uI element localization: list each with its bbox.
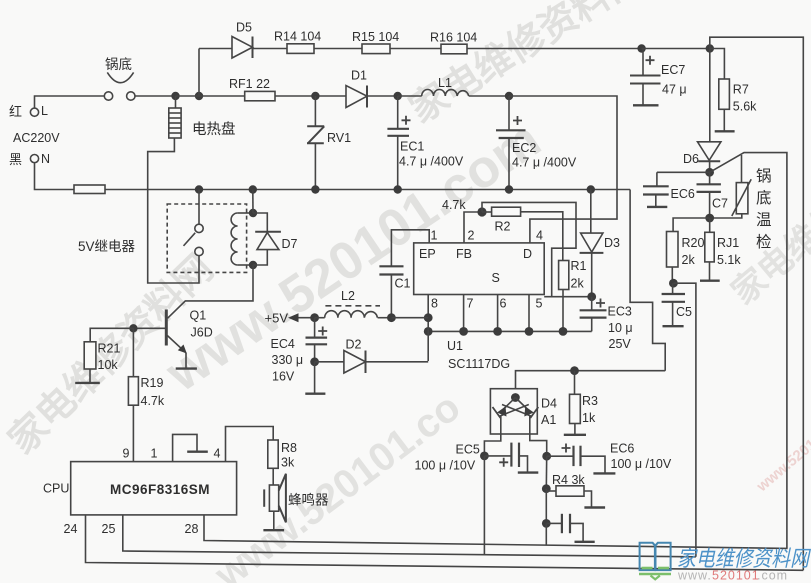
node RV1 top bbox=[311, 92, 319, 100]
svg-text:R8: R8 bbox=[281, 441, 297, 455]
svg-text:R4 3k: R4 3k bbox=[552, 473, 585, 487]
svg-text:U1: U1 bbox=[447, 339, 463, 353]
wire column to rail1 bbox=[545, 523, 547, 545]
inductor L2 bbox=[325, 311, 378, 318]
svg-text:家电维修资料网: 家电维修资料网 bbox=[677, 546, 811, 571]
ground R21 bbox=[75, 382, 100, 384]
svg-text:底: 底 bbox=[756, 189, 772, 207]
wire pin8 column bbox=[427, 295, 429, 362]
svg-text:R20: R20 bbox=[682, 236, 705, 250]
svg-text:D1: D1 bbox=[351, 69, 367, 83]
node C1 bottom bbox=[387, 313, 396, 322]
node coil top bbox=[249, 209, 257, 217]
svg-text:4.7 μ /400V: 4.7 μ /400V bbox=[512, 156, 577, 170]
wire R16 to EC7 node bbox=[467, 48, 642, 50]
svg-text:.com: .com bbox=[757, 569, 788, 583]
svg-text:28: 28 bbox=[185, 522, 199, 536]
node C5 top bbox=[669, 279, 678, 288]
node C6 bbox=[542, 519, 551, 528]
svg-text:7: 7 bbox=[467, 297, 474, 311]
wire D4 right lead bbox=[530, 434, 547, 456]
svg-text:蜂鸣器: 蜂鸣器 bbox=[288, 492, 329, 508]
node bus pin5 bbox=[525, 327, 534, 336]
svg-text:4.7k: 4.7k bbox=[442, 198, 466, 212]
ground pin1 bbox=[187, 451, 208, 453]
resistor R16 bbox=[441, 44, 467, 54]
watermark right edge red bbox=[753, 403, 811, 496]
svg-text:16V: 16V bbox=[272, 370, 295, 384]
watermark diagonal left 家电维修资料网 bbox=[1, 247, 222, 462]
svg-text:锅底: 锅底 bbox=[105, 57, 132, 72]
svg-text:EC3: EC3 bbox=[608, 305, 632, 319]
node EC4 bottom bbox=[310, 357, 319, 366]
node heater-top bbox=[171, 92, 179, 100]
label 锅底温检 vertical bbox=[756, 167, 772, 251]
node EC6b left bbox=[542, 452, 551, 461]
ground C5 bbox=[663, 325, 684, 327]
IC U1 box bbox=[414, 243, 545, 295]
capacitor C1 bbox=[379, 266, 403, 317]
wire R14-R15 bbox=[314, 48, 362, 50]
svg-text:1: 1 bbox=[431, 229, 438, 243]
wire N line bbox=[105, 189, 630, 191]
wire node to RF1 bbox=[176, 95, 245, 97]
wire R1 bottom to bus bbox=[562, 290, 564, 332]
wire heater bottom to relay contact bbox=[148, 138, 199, 283]
svg-text:CPU: CPU bbox=[43, 482, 69, 496]
node EC2 bottom bbox=[505, 185, 513, 193]
svg-text:100 μ /10V: 100 μ /10V bbox=[611, 457, 672, 471]
capacitor C7 bbox=[697, 172, 721, 218]
svg-text:FB: FB bbox=[456, 247, 472, 261]
svg-text:L2: L2 bbox=[341, 289, 355, 303]
svg-text:D2: D2 bbox=[346, 338, 362, 352]
ground EC6 top bbox=[647, 206, 667, 208]
ground R4 bbox=[584, 506, 605, 508]
D4 crossed diodes bbox=[493, 398, 539, 435]
svg-text:D5: D5 bbox=[236, 21, 252, 35]
watermark diagonal bottom-center www bbox=[206, 385, 468, 583]
CPU box bbox=[71, 462, 237, 515]
svg-text:D3: D3 bbox=[604, 236, 620, 250]
svg-text:R7: R7 bbox=[733, 83, 749, 97]
svg-text:www.520101.com: www.520101.com bbox=[753, 403, 811, 496]
pot-bottom arc bbox=[107, 72, 133, 82]
svg-text:+5V: +5V bbox=[265, 311, 289, 326]
node bus R1 bbox=[559, 327, 568, 336]
node bus pin8 bbox=[424, 327, 433, 336]
relay contact circle top bbox=[195, 224, 203, 232]
node EC3 top bbox=[587, 292, 596, 301]
logo book icon bbox=[640, 543, 671, 570]
node D4 top bbox=[511, 393, 520, 402]
svg-text:10 μ: 10 μ bbox=[608, 321, 633, 335]
wire N to contact bbox=[198, 190, 200, 225]
svg-text:黑: 黑 bbox=[9, 152, 22, 167]
node Q1 base bbox=[129, 324, 137, 332]
capacitor EC6 bottom bbox=[547, 444, 605, 473]
svg-text:25: 25 bbox=[102, 522, 116, 536]
wire node to L1 bbox=[398, 95, 422, 97]
capacitor C5 bbox=[662, 283, 685, 325]
heater element 电热盘 bbox=[169, 96, 181, 138]
watermark diagonal top-right 家电维修资料网 bbox=[403, 0, 651, 132]
capacitor EC4 bbox=[306, 318, 328, 362]
svg-text:D6: D6 bbox=[683, 152, 699, 166]
svg-text:锅: 锅 bbox=[756, 167, 772, 185]
svg-text:4: 4 bbox=[536, 229, 543, 243]
wire top-right loop to right edge bbox=[710, 37, 804, 570]
wire FB feedback loop bbox=[482, 202, 576, 296]
node EC5 bbox=[480, 452, 489, 461]
svg-text:EC2: EC2 bbox=[512, 141, 536, 155]
capacitor EC6 top bbox=[643, 172, 669, 206]
relay contact blade bbox=[184, 233, 196, 246]
svg-text:6: 6 bbox=[500, 297, 507, 311]
wire EC4 to ground bbox=[314, 362, 316, 393]
ground RJ1 bbox=[700, 280, 720, 282]
svg-text:EC5: EC5 bbox=[456, 443, 480, 457]
svg-text:47 μ: 47 μ bbox=[662, 83, 687, 97]
resistor R19 bbox=[128, 328, 138, 461]
svg-text:100 μ /10V: 100 μ /10V bbox=[415, 459, 476, 473]
wire riser to top line bbox=[198, 49, 200, 97]
svg-text:红: 红 bbox=[9, 104, 22, 119]
relay contact circle bottom bbox=[195, 247, 203, 255]
wire node to L2 bbox=[315, 317, 325, 319]
wire RF1 row bbox=[275, 95, 346, 97]
resistor R1 bbox=[559, 261, 569, 290]
node D3 top bbox=[587, 185, 595, 193]
node EC7 top bbox=[637, 44, 645, 52]
wire pin25 rail bbox=[123, 515, 696, 557]
svg-text:2k: 2k bbox=[571, 277, 585, 291]
relay coil bbox=[231, 213, 253, 265]
wire FBnode to R2 bbox=[482, 211, 492, 213]
resistor R8 bbox=[268, 440, 278, 468]
terminal L circle bbox=[30, 108, 38, 116]
svg-text:EC4: EC4 bbox=[271, 337, 295, 351]
ground C bottom bbox=[575, 541, 595, 543]
ground EC5 bbox=[518, 471, 539, 473]
diode D3 bbox=[580, 190, 604, 297]
logo url www.520101.com bbox=[677, 569, 788, 583]
wire C5 node to rail2 bbox=[673, 283, 696, 557]
node bus pin7 bbox=[459, 327, 468, 336]
watermark right edge gray bbox=[725, 195, 811, 312]
wire D4 left lead bbox=[484, 434, 500, 456]
svg-text:S: S bbox=[492, 271, 500, 285]
resistor R7 bbox=[710, 49, 730, 131]
wire node to pin8 bbox=[391, 317, 428, 319]
svg-text:N: N bbox=[41, 152, 50, 166]
wire source bus bbox=[428, 330, 592, 332]
capacitor EC2 bbox=[496, 96, 526, 190]
wire R2 to R1 bbox=[521, 212, 563, 261]
node FB bbox=[477, 207, 486, 216]
diode D6 bbox=[698, 49, 721, 173]
wire N to coil node bbox=[252, 190, 254, 214]
wire pin2 riser bbox=[464, 212, 482, 243]
wire L2 to C1 node bbox=[378, 317, 392, 319]
wire pin7 bbox=[463, 295, 465, 332]
svg-text:R14 104: R14 104 bbox=[274, 30, 321, 44]
wire pin5 bbox=[528, 295, 530, 332]
svg-text:2k: 2k bbox=[682, 253, 696, 267]
wire column to C6 bbox=[545, 489, 547, 524]
wire arrow to node bbox=[299, 317, 315, 319]
node D5-riser bbox=[195, 92, 203, 100]
svg-text:4.7 μ /400V: 4.7 μ /400V bbox=[399, 155, 464, 169]
node R3 top bbox=[570, 366, 579, 375]
svg-text:检: 检 bbox=[756, 233, 772, 251]
node R4 bbox=[542, 484, 551, 493]
svg-text:520101: 520101 bbox=[712, 569, 760, 583]
svg-text:5: 5 bbox=[536, 297, 543, 311]
watermark diagonal center www.520101.com bbox=[155, 110, 551, 404]
svg-text:L: L bbox=[41, 104, 48, 118]
svg-text:5.6k: 5.6k bbox=[733, 100, 757, 114]
node L-top wire bbox=[35, 96, 105, 108]
svg-text:EC1: EC1 bbox=[400, 140, 424, 154]
wire S row to EC3 bbox=[544, 296, 592, 298]
resistor R20 bbox=[667, 218, 710, 283]
wire pin4 to R8 bbox=[226, 427, 274, 462]
svg-text:J6D: J6D bbox=[191, 326, 213, 340]
relay dashed box bbox=[167, 204, 246, 272]
ground R3 bbox=[564, 434, 586, 436]
wire EC2node right and down to pin4 bbox=[509, 96, 617, 243]
ground EC7 bbox=[633, 104, 659, 106]
svg-text:330 μ: 330 μ bbox=[272, 353, 304, 367]
svg-text:家电维修资料网: 家电维修资料网 bbox=[403, 0, 651, 132]
capacitor C bottom bbox=[546, 514, 583, 541]
svg-text:1k: 1k bbox=[582, 411, 596, 425]
diode D7 bbox=[253, 213, 281, 265]
svg-text:R15 104: R15 104 bbox=[352, 30, 399, 44]
terminal N circle bbox=[30, 155, 38, 163]
node C7 bottom bbox=[705, 214, 714, 223]
wire switch to node bbox=[135, 95, 176, 97]
resistor R21 bbox=[84, 328, 133, 382]
fuse bbox=[74, 185, 105, 194]
svg-text:EC6: EC6 bbox=[671, 187, 695, 201]
thermistor 锅底温检 bbox=[710, 155, 752, 218]
node pin8 5V bbox=[424, 313, 433, 322]
wire top line bbox=[199, 48, 232, 50]
svg-text:电热盘: 电热盘 bbox=[192, 120, 236, 138]
svg-text:www.: www. bbox=[677, 569, 712, 583]
svg-text:4.7k: 4.7k bbox=[141, 394, 165, 408]
diode D5 bbox=[232, 37, 287, 59]
capacitor EC5 bbox=[484, 443, 527, 472]
svg-text:MC96F8316SM: MC96F8316SM bbox=[110, 482, 210, 497]
pin1 bracket to ground bbox=[173, 434, 197, 461]
wire EC5node down to rail2 bbox=[483, 456, 485, 555]
node relay-switch top bbox=[195, 185, 203, 193]
resistor R14 bbox=[287, 44, 314, 54]
svg-text:1: 1 bbox=[151, 447, 158, 461]
svg-text:25V: 25V bbox=[609, 337, 632, 351]
svg-text:C1: C1 bbox=[395, 277, 411, 291]
svg-text:RJ1: RJ1 bbox=[717, 236, 739, 250]
wire EC7node to corner node bbox=[642, 48, 710, 50]
node top-right bbox=[706, 44, 714, 52]
svg-text:D7: D7 bbox=[282, 237, 298, 251]
logo book green pages bbox=[639, 568, 671, 579]
wire N down bbox=[35, 163, 75, 190]
L2 core dashed bbox=[325, 305, 380, 307]
capacitor EC3 bbox=[580, 297, 607, 332]
svg-text:C7: C7 bbox=[712, 197, 728, 211]
wire D6 node to EC6 bbox=[657, 171, 710, 173]
ground EC6 bottom bbox=[593, 472, 615, 474]
svg-text:EC6: EC6 bbox=[610, 442, 634, 456]
wire pin28 rail bbox=[204, 515, 788, 549]
diode D1 bbox=[346, 86, 398, 108]
svg-text:24: 24 bbox=[64, 522, 78, 536]
svg-text:R19: R19 bbox=[141, 376, 164, 390]
svg-text:A1: A1 bbox=[541, 413, 556, 427]
ground Q1 emitter bbox=[176, 367, 197, 369]
capacitor EC1 bbox=[387, 96, 410, 190]
wire pin1 to C1 bbox=[391, 230, 429, 266]
ground buzzer bbox=[263, 529, 284, 531]
svg-text:9: 9 bbox=[123, 447, 130, 461]
wire N-line right corner steps to D4 wire bbox=[630, 190, 665, 371]
node RV1 bottom bbox=[311, 185, 319, 193]
wire column to R4 bbox=[545, 456, 547, 489]
inductor L1 bbox=[422, 90, 469, 96]
ground R7 bbox=[715, 130, 735, 132]
node bus pin6 bbox=[493, 327, 502, 336]
svg-text:8: 8 bbox=[431, 297, 438, 311]
svg-text:R21: R21 bbox=[98, 342, 121, 356]
svg-text:D4: D4 bbox=[541, 397, 557, 411]
ground EC4 bbox=[305, 393, 325, 395]
wire D4-R3 top bbox=[516, 371, 666, 397]
svg-text:C5: C5 bbox=[676, 305, 692, 319]
svg-text:SC1117DG: SC1117DG bbox=[448, 357, 510, 371]
svg-text:R3: R3 bbox=[582, 394, 598, 408]
wire pin24 rail bbox=[86, 515, 804, 570]
node coil bottom bbox=[249, 261, 257, 269]
svg-text:10k: 10k bbox=[98, 358, 119, 372]
wire coil bottom to Q1 collector bbox=[168, 265, 254, 318]
svg-text:RV1: RV1 bbox=[327, 131, 351, 145]
resistor R2 bbox=[492, 207, 521, 216]
wire L1 to EC2 node bbox=[469, 95, 509, 97]
node EC1 top bbox=[394, 92, 402, 100]
svg-text:4: 4 bbox=[214, 447, 221, 461]
svg-text:3k: 3k bbox=[281, 456, 295, 470]
svg-text:D: D bbox=[523, 247, 532, 261]
wire D6 node diagonal right bbox=[710, 153, 787, 549]
buzzer 蜂鸣器 bbox=[264, 468, 286, 529]
svg-text:温: 温 bbox=[756, 211, 772, 229]
svg-text:R2: R2 bbox=[495, 220, 511, 234]
node EC2 top bbox=[505, 92, 513, 100]
diode D2 bbox=[315, 351, 429, 374]
svg-text:Q1: Q1 bbox=[190, 309, 207, 323]
node EC4 top bbox=[310, 313, 319, 322]
resistor R4 bbox=[546, 486, 591, 507]
svg-text:5.1k: 5.1k bbox=[717, 253, 741, 267]
wire R15-R16 bbox=[390, 48, 441, 50]
svg-text:R1: R1 bbox=[571, 259, 587, 273]
svg-text:EC7: EC7 bbox=[661, 63, 685, 77]
+5V arrow bbox=[288, 313, 299, 322]
svg-text:EP: EP bbox=[419, 247, 436, 261]
svg-text:2: 2 bbox=[468, 229, 475, 243]
switch contact circle right bbox=[127, 92, 135, 100]
node D6 bottom bbox=[705, 168, 714, 177]
resistor RF1 bbox=[245, 91, 275, 100]
switch contact circle left bbox=[104, 92, 112, 100]
optocoupler D4 box bbox=[490, 389, 537, 434]
resistor R3 bbox=[570, 371, 581, 434]
node relay-coil top bbox=[249, 185, 257, 193]
svg-text:R16 104: R16 104 bbox=[430, 31, 477, 45]
svg-text:AC220V: AC220V bbox=[13, 131, 60, 145]
svg-text:L1: L1 bbox=[438, 76, 452, 90]
svg-text:RF1 22: RF1 22 bbox=[229, 77, 270, 91]
transistor Q1 bbox=[133, 310, 186, 369]
wire pin6 bbox=[497, 295, 499, 332]
resistor RJ1 bbox=[705, 218, 714, 280]
capacitor EC7 bbox=[630, 49, 661, 105]
node EC1 bottom bbox=[394, 185, 402, 193]
varistor RV1 bbox=[307, 96, 324, 190]
svg-text:5V继电器: 5V继电器 bbox=[78, 239, 136, 254]
resistor R15 bbox=[362, 44, 390, 54]
